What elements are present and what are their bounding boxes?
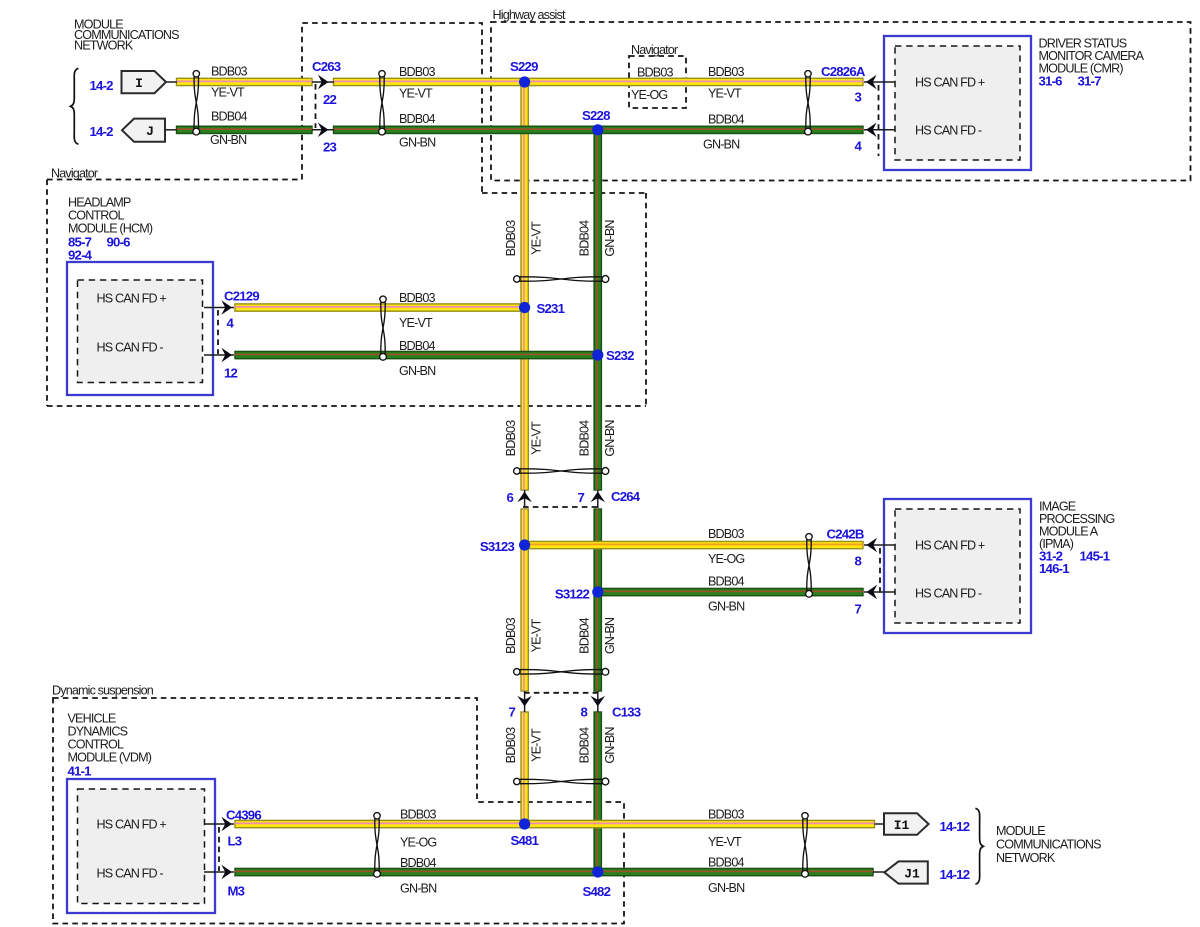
svg-text:GN-BN: GN-BN (399, 136, 436, 150)
svg-text:C2826A: C2826A (821, 64, 866, 79)
svg-text:BDB03: BDB03 (708, 65, 744, 79)
C264 pin 7 arrow (591, 492, 605, 503)
splice S229 (519, 76, 530, 87)
svg-text:7: 7 (508, 705, 515, 720)
twisted pair symbol (vertical pair above C133) (514, 668, 609, 675)
IPMA pin 8 arrow (C242B) (867, 538, 878, 552)
wire BDB04 GN-BN from VDM through S482 to J1 (235, 868, 873, 875)
svg-text:J: J (146, 124, 154, 139)
module title CMR (1039, 37, 1145, 76)
connector C242B pin joint line (879, 548, 881, 594)
svg-text:8: 8 (580, 705, 587, 720)
twisted pair symbol (VDM pair) (374, 813, 381, 878)
svg-text:YE-VT: YE-VT (399, 316, 433, 330)
splice S3122 (592, 586, 603, 597)
svg-text:GN-BN: GN-BN (603, 617, 617, 654)
svg-text:GN-BN: GN-BN (703, 138, 740, 152)
svg-text:BDB03: BDB03 (504, 617, 518, 653)
module title IPMA (1039, 500, 1115, 552)
svg-text:HS CAN FD +: HS CAN FD + (915, 539, 985, 553)
svg-text:CONTROL: CONTROL (68, 738, 124, 752)
svg-text:Navigator: Navigator (631, 43, 678, 57)
svg-text:31-6: 31-6 (1039, 74, 1063, 89)
splice S231 (519, 302, 530, 313)
connector C4396 pin joint line (218, 827, 220, 871)
twisted pair symbol (HCM pair) (380, 296, 387, 360)
wire BDB03 YE-VT from connector I to C263 (177, 78, 313, 85)
splice S482 (592, 866, 603, 877)
svg-text:HS CAN FD +: HS CAN FD + (97, 292, 167, 306)
svg-text:BDB04: BDB04 (578, 220, 592, 256)
svg-text:GN-BN: GN-BN (708, 881, 745, 895)
svg-text:GN-BN: GN-BN (603, 420, 617, 457)
svg-text:6: 6 (506, 490, 513, 505)
svg-text:146-1: 146-1 (1039, 561, 1069, 576)
svg-text:YE-VT: YE-VT (708, 87, 742, 101)
svg-text:BDB04: BDB04 (211, 110, 247, 124)
svg-text:VEHICLE: VEHICLE (68, 712, 116, 726)
twisted pair symbol (vertical pair above C264) (514, 468, 609, 475)
CMR pin 3 arrow (C2826A) (866, 75, 877, 89)
C264 pin 6 lead (524, 490, 526, 508)
connector J1 lead (873, 871, 885, 873)
twisted pair symbol (vertical pair above S481) (514, 778, 609, 785)
wire BDB04 GN-BN vertical segment C133 to S482 (594, 712, 601, 872)
svg-text:BDB04: BDB04 (400, 856, 436, 870)
svg-text:BDB04: BDB04 (399, 339, 435, 353)
connector I lead (166, 81, 177, 83)
module box DRIVER STATUS MONITOR CAMERA MODULE (CMR) (884, 36, 1031, 170)
svg-text:BDB03: BDB03 (637, 66, 673, 80)
C263 pin 23 arrow (318, 123, 329, 137)
svg-text:M3: M3 (228, 884, 245, 899)
HCM pin 4 lead (204, 307, 234, 309)
svg-text:14-12: 14-12 (940, 867, 970, 882)
svg-text:NETWORK: NETWORK (996, 851, 1056, 865)
svg-text:YE-VT: YE-VT (530, 221, 544, 255)
connector J1 (884, 861, 928, 883)
svg-text:BDB04: BDB04 (708, 113, 744, 127)
svg-text:GN-BN: GN-BN (400, 882, 437, 896)
svg-text:J1: J1 (904, 867, 920, 882)
connector C264 joint line (523, 506, 598, 508)
twisted pair symbol (after C263) (379, 71, 386, 135)
svg-text:BDB03: BDB03 (504, 220, 518, 256)
Navigator region left edge (46, 180, 48, 407)
connector I1 lead (875, 823, 886, 825)
svg-text:YE-OG: YE-OG (708, 552, 744, 566)
C263 pin 23 lead (312, 129, 334, 131)
brace (module communications network, left) (71, 68, 79, 144)
svg-text:HS CAN FD -: HS CAN FD - (915, 124, 982, 138)
svg-text:BDB03: BDB03 (211, 65, 247, 79)
splice S232 (592, 349, 603, 360)
connector J lead (165, 129, 177, 131)
C133 pin 8 arrow (591, 696, 605, 707)
CMR pin 3 lead (864, 81, 895, 83)
svg-text:8: 8 (854, 554, 861, 569)
C264 pin 6 arrow (517, 492, 531, 503)
C133 pin 7 lead (524, 691, 526, 712)
svg-text:GN-BN: GN-BN (210, 133, 247, 147)
svg-text:14-2: 14-2 (90, 124, 114, 139)
twisted pair symbol (I/J pair) (193, 71, 200, 135)
Navigator region inner-box top edge (482, 192, 646, 194)
Navigator small wire-label box (629, 56, 686, 108)
IPMA pin 7 lead (864, 591, 895, 593)
svg-text:CONTROL: CONTROL (68, 209, 124, 223)
module title VDM (68, 712, 152, 765)
twisted pair symbol (IPMA pair) (806, 534, 813, 598)
svg-text:S482: S482 (583, 884, 611, 899)
connector C263 pin joint line (315, 84, 317, 128)
svg-text:HS CAN FD -: HS CAN FD - (97, 867, 164, 881)
svg-text:YE-VT: YE-VT (530, 728, 544, 762)
svg-text:23: 23 (323, 140, 337, 155)
svg-text:S231: S231 (537, 301, 565, 316)
svg-text:MODULE (HCM): MODULE (HCM) (68, 222, 153, 236)
Dynamic suspension region box (53, 698, 624, 924)
C263 pin 22 lead (312, 81, 334, 83)
Navigator region inner-box right edge (645, 193, 647, 406)
wire BDB03 YE-VT vertical segment S229 to C264 (521, 82, 528, 490)
connector C2129 pin joint line (217, 310, 219, 354)
svg-text:BDB03: BDB03 (708, 527, 744, 541)
svg-text:S481: S481 (511, 833, 539, 848)
wire BDB03 YE-VT vertical segment C264 to C133 (521, 509, 528, 691)
wire BDB04 GN-BN from connector J to C263 (177, 126, 313, 133)
module communications network heading (bottom right) (996, 824, 1101, 865)
svg-text:S228: S228 (582, 108, 610, 123)
svg-text:HS CAN FD -: HS CAN FD - (915, 587, 982, 601)
VDM pin M3 arrow (C4396) (221, 865, 232, 879)
VDM pin L3 arrow (C4396) (221, 817, 232, 831)
svg-text:C264: C264 (611, 489, 641, 504)
svg-text:S3122: S3122 (555, 587, 590, 602)
C264 pin 7 lead (597, 490, 599, 508)
svg-text:22: 22 (323, 92, 337, 107)
wire BDB04 GN-BN vertical segment C264 to C133 (594, 509, 601, 691)
twisted pair symbol (I1/J1 pair) (802, 813, 809, 878)
Highway assist region box (491, 22, 1191, 181)
svg-text:BDB03: BDB03 (399, 65, 435, 79)
svg-text:GN-BN: GN-BN (708, 600, 745, 614)
wire BDB03 YE-OG/YE-VT from VDM through S481 to I1 (235, 820, 875, 827)
svg-text:C2129: C2129 (224, 289, 259, 304)
VDM pin L3 lead (204, 823, 234, 825)
IPMA pin 7 arrow (C242B) (867, 585, 878, 599)
svg-text:DYNAMICS: DYNAMICS (68, 725, 128, 739)
CMR pin 4 lead (864, 129, 895, 131)
svg-text:92-4: 92-4 (68, 248, 93, 263)
svg-text:C133: C133 (612, 705, 641, 720)
wire BDB03 YE-VT vertical segment C133 to S481 (521, 712, 528, 824)
svg-text:BDB03: BDB03 (504, 420, 518, 456)
twisted pair symbol (vertical pair above S231) (514, 276, 609, 283)
svg-text:14-2: 14-2 (90, 78, 114, 93)
splice S228 (592, 124, 603, 135)
svg-text:HEADLAMP: HEADLAMP (68, 196, 131, 210)
svg-text:BDB03: BDB03 (400, 808, 436, 822)
dashed harness box (top, around C263 region) (302, 23, 482, 193)
splice S3123 (519, 539, 530, 550)
connector I (122, 71, 167, 93)
svg-text:GN-BN: GN-BN (399, 364, 436, 378)
svg-text:S3123: S3123 (480, 539, 515, 554)
svg-text:BDB03: BDB03 (399, 291, 435, 305)
svg-text:7: 7 (577, 490, 584, 505)
connector C133 joint line (524, 692, 598, 694)
svg-text:BDB04: BDB04 (708, 575, 744, 589)
C263 pin 22 arrow (318, 75, 329, 89)
svg-text:7: 7 (854, 602, 861, 617)
module title HCM (68, 196, 153, 236)
module box VEHICLE DYNAMICS CONTROL MODULE (VDM) (67, 779, 215, 913)
svg-text:3: 3 (854, 90, 861, 105)
Navigator region bottom edge (47, 405, 646, 407)
svg-text:YE-VT: YE-VT (530, 618, 544, 652)
svg-text:BDB03: BDB03 (708, 808, 744, 822)
svg-text:HS CAN FD -: HS CAN FD - (97, 341, 164, 355)
svg-text:BDB03: BDB03 (504, 727, 518, 763)
svg-text:S232: S232 (606, 348, 634, 363)
svg-text:YE-VT: YE-VT (530, 421, 544, 455)
wire BDB03 YE-VT from C263 to CMR (334, 78, 864, 85)
svg-text:31-7: 31-7 (1078, 74, 1102, 89)
Navigator region top edge (47, 179, 302, 181)
connector C2826A pin joint line (878, 85, 880, 156)
wire BDB04 GN-BN vertical segment S228 to C264 (594, 130, 601, 490)
svg-text:COMMUNICATIONS: COMMUNICATIONS (996, 837, 1101, 851)
svg-text:90-6: 90-6 (107, 235, 131, 250)
svg-text:L3: L3 (228, 834, 242, 849)
svg-text:YE-OG: YE-OG (400, 836, 436, 850)
svg-text:C242B: C242B (827, 527, 864, 542)
wire BDB04 GN-BN from C263 to CMR (334, 126, 864, 133)
HCM pin 12 lead (204, 354, 234, 356)
module box HEADLAMP CONTROL MODULE (HCM) (67, 262, 213, 395)
svg-text:NETWORK: NETWORK (74, 39, 134, 53)
VDM pin M3 lead (204, 871, 234, 873)
C133 pin 8 lead (597, 691, 599, 712)
svg-text:I: I (135, 76, 143, 91)
svg-text:Navigator: Navigator (51, 167, 98, 181)
svg-text:BDB04: BDB04 (578, 727, 592, 763)
brace (module communications network, right) (975, 808, 983, 884)
svg-text:145-1: 145-1 (1080, 549, 1110, 564)
svg-text:I1: I1 (894, 818, 910, 833)
svg-text:BDB04: BDB04 (399, 112, 435, 126)
svg-text:Dynamic suspension: Dynamic suspension (52, 684, 154, 698)
svg-text:YE-VT: YE-VT (708, 835, 742, 849)
svg-text:Highway assist: Highway assist (493, 8, 566, 22)
svg-text:HS CAN FD +: HS CAN FD + (915, 76, 985, 90)
svg-text:YE-OG: YE-OG (631, 88, 667, 102)
IPMA pin 8 lead (864, 544, 895, 546)
svg-text:GN-BN: GN-BN (603, 727, 617, 764)
svg-text:12: 12 (224, 366, 238, 381)
HCM pin 12 arrow (C2129) (221, 348, 232, 362)
svg-text:14-12: 14-12 (940, 819, 970, 834)
wire BDB04 GN-BN from HCM to splice S232 (235, 351, 601, 358)
connector J (122, 119, 165, 142)
C133 pin 7 arrow (517, 696, 531, 707)
wire BDB03 YE-OG from splice S3123 to IPMA (521, 541, 863, 548)
svg-text:HS CAN FD +: HS CAN FD + (97, 818, 167, 832)
svg-text:BDB04: BDB04 (578, 617, 592, 653)
connector I1 (884, 813, 929, 835)
HCM pin 4 arrow (C2129) (221, 300, 232, 314)
svg-text:BDB04: BDB04 (578, 420, 592, 456)
wire BDB03 YE-VT from HCM to splice S231 (235, 304, 528, 311)
svg-text:YE-VT: YE-VT (211, 86, 245, 100)
splice S481 (519, 818, 530, 829)
svg-text:C4396: C4396 (226, 808, 261, 823)
svg-text:C263: C263 (312, 59, 341, 74)
svg-text:41-1: 41-1 (68, 764, 92, 779)
svg-text:MODULE (VDM): MODULE (VDM) (68, 751, 152, 765)
svg-text:BDB04: BDB04 (708, 856, 744, 870)
svg-text:MODULE: MODULE (996, 824, 1045, 838)
wire BDB04 GN-BN from splice S3122 to IPMA (594, 588, 863, 595)
module box IMAGE PROCESSING MODULE A (IPMA) (884, 499, 1031, 633)
svg-text:GN-BN: GN-BN (603, 220, 617, 257)
twisted pair symbol (before CMR) (805, 71, 812, 135)
svg-text:S229: S229 (510, 59, 538, 74)
svg-text:YE-VT: YE-VT (399, 87, 433, 101)
CMR pin 4 arrow (C2826A) (866, 123, 877, 137)
module communications network heading (top left) (74, 18, 179, 53)
